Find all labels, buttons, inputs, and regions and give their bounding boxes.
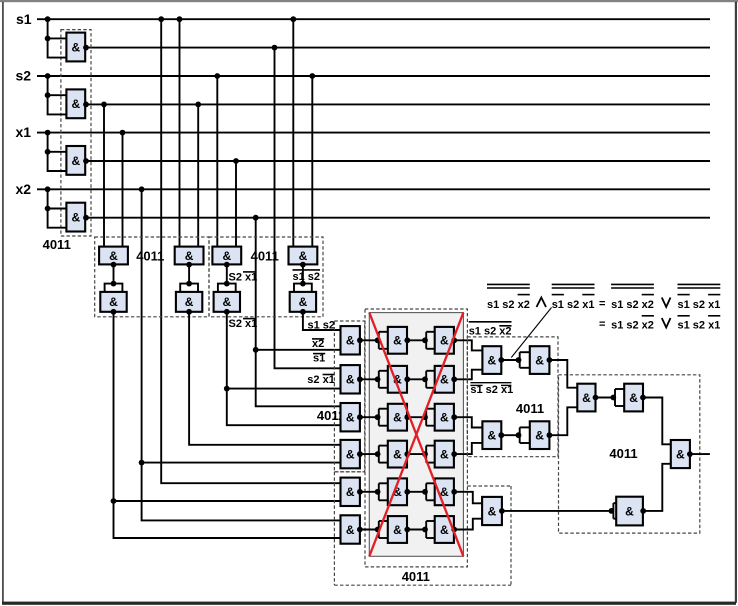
NAND inverter U1D [66,203,85,232]
wire U2A inverter input bracket [105,284,123,292]
svg-text:&: & [488,504,497,518]
wire U2C output down [226,312,228,389]
NAND gate U6B [482,421,501,449]
junction U2B inverter split [186,281,192,287]
svg-text:4011: 4011 [136,249,164,264]
NAND inverter U1B [66,89,85,118]
wire U2A feed U4B [114,501,341,538]
wire V5b to U4C [454,492,482,504]
input label x2 [16,181,32,197]
wire s2n tap to U2B [197,104,199,246]
formula OR operator 1 [662,298,671,308]
svg-text:&: & [346,523,355,537]
wire s2n tap to U2A [103,104,105,246]
wire V4b to U6B [454,443,482,454]
formula OR operator 2 [662,318,671,328]
svg-text:&: & [440,447,449,461]
junction U6Bi output [547,432,553,438]
IC box 4011 U3 [334,321,364,472]
wire U2A feed U4A [114,500,341,502]
red cross line 2 [369,313,463,557]
junction inverter V1b split [422,337,428,343]
bus x1n (inverted) [85,160,710,162]
junction U6A inverter split [516,357,522,363]
junction V2a output [404,376,410,382]
NAND inverter V3a [388,404,407,431]
junction U6A output [498,357,504,363]
wire inverter V2b input bracket [426,371,435,388]
junction inverter V6a split [375,527,381,533]
svg-text:&: & [487,429,496,443]
svg-text:s1 s2: s1 s2 [293,271,321,283]
svg-text:&: & [346,485,355,499]
junction x1n tap to U2C [233,158,239,164]
wire U7C input bracket [613,503,616,519]
NAND inverter V1a [388,327,407,354]
svg-text:4011: 4011 [251,249,279,264]
wire inverter V3b input bracket [426,409,435,426]
junction inverter U1B output [83,102,89,108]
NAND inverter U2Ai [100,292,126,312]
wire U2D feed U3A [303,312,341,330]
junction V2b output [451,376,457,382]
wire V5a to V5b [407,491,426,493]
wire s1 to inverter U1A [48,19,67,57]
bus s2n (inverted) [85,103,710,105]
svg-text:&: & [440,373,449,387]
svg-text:&: & [440,411,449,425]
wire inverter V6b input bracket [426,521,435,538]
svg-text:s1: s1 [16,11,32,27]
NAND gate U2A [99,247,128,265]
junction inverter V2b split [422,376,428,382]
label s2 x1 [307,374,335,386]
wire U3B output to inverter V2a [360,378,379,380]
junction inverter V4b split [422,451,428,457]
junction s1 tap to U2D [290,16,296,22]
bus x1 [37,132,710,134]
IC box 4011 U4 [334,472,511,585]
svg-text:&: & [440,523,449,537]
label s1 s2 (AND output) [308,319,336,331]
junction V6a output [404,527,410,533]
wire V6a to V6b [407,529,426,531]
wire U2D to inverter [302,265,304,284]
NAND inverter V2a [388,366,407,393]
junction x2n tap [253,215,259,221]
junction inverter V3a split [375,414,381,420]
NAND inverter U7C [616,497,643,526]
redundant block background [369,313,463,557]
junction inverter U1C input split [45,149,51,155]
junction s1n tap [272,45,278,51]
svg-text:&: & [71,97,80,111]
svg-text:&: & [299,295,308,309]
junction U7A output [593,395,599,401]
bus s1n (inverted) [85,47,710,49]
NAND inverter U1C [66,146,85,175]
label 4011 U1 [43,237,71,252]
bus s2 [37,75,710,77]
wire U6B to inverter [501,434,519,436]
wire inverter V4a input bracket [379,446,388,463]
junction inverter V6b split [422,527,428,533]
junction U7D output [687,451,693,457]
wire x2n tap down [255,218,257,350]
wire inverter V3a input bracket [379,409,388,426]
junction U2C feed U3B [224,386,230,392]
wire inverter V5a input bracket [379,483,388,500]
svg-text:S2 x1: S2 x1 [229,318,258,330]
svg-text:x1: x1 [16,124,32,140]
label S2 x1 (AND output) [229,318,258,330]
svg-text:=: = [599,318,605,330]
wire U7A inverter bracket [615,389,624,406]
wire x1n tap to U2C [235,161,237,247]
wire U4B output to inverter V6a [360,529,379,531]
NAND inverter U7Ai [624,384,643,412]
junction U2D output [300,262,306,268]
NAND inverter U2Ci [214,292,240,312]
junction inverter V5b split [422,489,428,495]
wire U3C output to inverter V3a [360,416,379,418]
svg-text:&: & [346,373,355,387]
junction V4a output [404,451,410,457]
wire U6A inverter bracket [520,352,530,368]
NAND gate U2B [175,247,204,265]
wire U7Ai to U7D [643,398,671,445]
svg-text:4011: 4011 [609,446,637,461]
formula line 2 term2 [678,316,721,332]
junction x1 tap [45,130,51,136]
junction U2B output [186,262,192,268]
NAND gate U4A [341,478,360,506]
NAND inverter V3b [435,404,454,431]
junction U4A output [357,489,363,495]
svg-text:s1 s2 x1: s1 s2 x1 [678,319,721,331]
NAND inverter U6Ai [530,346,550,374]
label 4011 U3 [317,408,345,423]
bus x2 [37,188,710,190]
label s1 s2 (NAND U2D output, inverted) [293,270,321,283]
svg-text:&: & [346,411,355,425]
wire inverter V5b input bracket [426,483,435,500]
junction s2n tap to U2B [195,102,201,108]
svg-text:s1 s2 x1: s1 s2 x1 [552,299,595,311]
svg-text:&: & [185,295,194,309]
svg-text:&: & [393,523,402,537]
svg-text:&: & [535,353,544,367]
wire inverter V6a input bracket [379,521,388,538]
junction inverter U1C output [83,158,89,164]
junction V6b output [451,527,457,533]
wire U2A to inverter [113,265,115,284]
junction s2n tap to U2A [101,102,107,108]
input label s2 [16,67,32,83]
NAND gate U7D [671,440,690,468]
label 4011 U5 [402,569,430,584]
junction U2A feed U4A [111,498,117,504]
junction V3b output [451,414,457,420]
junction U7C split [609,508,615,514]
NAND inverter U4C [482,497,502,525]
wire V1b to U6A [454,340,482,350]
NAND gate U6A [482,346,501,374]
wire x2 feed U3D [142,462,341,464]
svg-text:s1 s2 x1: s1 s2 x1 [678,299,721,311]
NAND gate U3B [341,365,360,393]
svg-text:S2 x1: S2 x1 [229,272,258,284]
svg-text:4011: 4011 [402,569,430,584]
junction V5a output [404,489,410,495]
NAND inverter V6a [388,516,407,543]
svg-text:&: & [582,391,591,405]
junction inverter U1A output [83,45,89,51]
wire U4C to U7C [502,510,614,512]
wire V2a to V2b [407,378,426,380]
NAND inverter V4b [435,441,454,468]
wire x2 to inverter U1D [48,189,67,227]
formula AND operator [537,298,547,308]
NAND gate U2D [289,247,318,265]
wire x1 to inverter U1C [48,133,67,171]
NAND gate U2C [212,247,241,265]
junction U7A inverter split [610,395,616,401]
wire U6Ai to U7A [549,360,577,388]
svg-text:&: & [222,295,231,309]
junction U2A output [111,262,117,268]
svg-text:&: & [222,249,231,263]
junction U4C output [499,508,505,514]
wire s1 feed U4A [161,19,340,483]
junction V3a output [404,414,410,420]
wire s2 tap to U2D [311,76,313,247]
junction U2Ai output [111,309,117,315]
junction U3C output [357,414,363,420]
label S2 x1 (NAND U2C output) [229,272,258,284]
junction U2A inverter split [111,281,117,287]
label s1 s2 x1 (U6B input, full negation) [470,383,513,397]
label 4011 U2a [136,249,164,264]
wire V3b to U6B [454,417,482,427]
wire U6A to inverter [501,359,519,361]
svg-text:s1 s2 x2: s1 s2 x2 [611,319,654,331]
wire U7C to U7D [643,464,671,511]
svg-text:=: = [599,298,605,310]
wire U6B inverter bracket [520,427,530,443]
svg-text:s1 s2 x2: s1 s2 x2 [469,326,512,338]
IC box 4011 U6 [467,337,558,457]
svg-text:&: & [393,411,402,425]
IC box 4011 U2b [209,237,323,317]
junction U4B output [357,527,363,533]
junction inverter V3b split [422,414,428,420]
wire s1 tap to U2D [292,19,294,246]
NAND gate U3C [341,403,360,431]
NAND gate U4B [341,515,360,543]
wire x1 tap to U2A [122,133,124,247]
wire U2B to inverter [188,265,190,284]
wire x2n feed U3B2 [256,350,341,407]
IC box 4011 U2a [95,237,209,317]
NAND inverter V5b [435,478,454,505]
wire output [690,453,710,455]
junction s1 tap [45,16,51,22]
wire s1 tap to U2B [179,19,181,246]
junction V1b output [451,337,457,343]
svg-text:s1 s2 x2: s1 s2 x2 [487,299,530,311]
junction U3A output [357,337,363,343]
svg-text:x2: x2 [16,181,32,197]
svg-text:&: & [393,334,402,348]
formula line 1 term3 [611,284,654,310]
junction s2 tap to U2D [309,73,315,79]
svg-text:&: & [299,249,308,263]
wire V3a to V3b [407,416,426,418]
input label x1 [16,124,32,140]
junction inverter U1D output [83,215,89,221]
wire U2B feed U3D [189,312,340,445]
wire inverter V2a input bracket [379,371,388,388]
svg-text:&: & [440,334,449,348]
wire s2 tap to U2C [216,76,218,247]
wire U4A output to inverter V5a [360,491,379,493]
svg-text:&: & [71,40,80,54]
formula line 1 term2 [552,284,595,310]
wire U2D inverter input bracket [294,284,312,292]
junction U2C inverter split [224,281,230,287]
svg-text:&: & [676,447,685,461]
svg-text:&: & [535,429,544,443]
input label s1 [16,11,32,27]
wire V6b to U4C [454,519,482,530]
wire x2 tap down [141,189,143,462]
NAND inverter V5a [388,478,407,505]
junction U7C output [640,508,646,514]
NAND inverter V1b [435,327,454,354]
wire V4a to V4b [407,453,426,455]
junction U2Bi output [186,309,192,315]
svg-text:&: & [346,447,355,461]
label 4011 U7 [609,446,637,461]
wire U2C inverter input bracket [218,284,236,292]
junction U6B output [498,432,504,438]
wire U2C feed U3B [227,388,341,390]
svg-text:&: & [346,334,355,348]
junction U6Ai output [547,357,553,363]
NAND inverter V6b [435,516,454,543]
wire U3A output to inverter V1a [360,339,379,341]
pointer line to U6A junction [511,308,551,358]
junction U2C output [224,262,230,268]
svg-text:&: & [71,154,80,168]
junction U3B output [357,376,363,382]
label s1 inverted [313,352,325,364]
IC box 4011 U1 [61,30,91,236]
formula line 1 term1 [487,284,530,310]
NAND gate U3D [341,440,360,468]
wire x2n feed U3A [256,349,341,351]
svg-text:&: & [393,447,402,461]
wire U7A to inverter [596,397,616,399]
NAND inverter U1A [66,33,85,62]
svg-text:&: & [625,504,634,518]
svg-text:s1 s2 x2: s1 s2 x2 [611,299,654,311]
wire U6Bi to U7A [549,407,577,435]
NAND gate U3A [341,326,360,354]
wire U2B inverter input bracket [180,284,198,292]
formula line 2 term1 [611,316,654,332]
wire U2A output down [113,312,115,501]
junction V4b output [451,451,457,457]
svg-text:s2 x1: s2 x1 [307,374,335,386]
junction x2 feed U3D [139,460,145,466]
svg-text:4011: 4011 [43,237,71,252]
junction U6B inverter split [516,432,522,438]
junction U7Ai output [640,395,646,401]
svg-text:&: & [629,391,638,405]
formula equals 2 [599,318,605,330]
junction inverter V5a split [375,489,381,495]
red cross line 1 [369,313,463,557]
formula line 1 term4 [678,284,721,310]
label s1 s2 x2 (U6A input, full negation) [469,322,512,338]
svg-text:&: & [109,295,118,309]
junction V1a output [404,337,410,343]
NAND inverter V2b [435,366,454,393]
IC box 4011 U5 (crossed out) [365,309,467,567]
junction inverter U1D input split [45,206,51,212]
wire s2 to inverter U1B [48,76,67,114]
junction U2Di output [300,309,306,315]
svg-text:&: & [109,249,118,263]
junction x1 tap to U2A [120,130,126,136]
junction U2D inverter split [300,281,306,287]
junction x2 tap [45,186,51,192]
svg-text:&: & [185,249,194,263]
NAND gate U7A [577,384,595,412]
svg-text:&: & [487,353,496,367]
junction s1 tap [158,16,164,22]
NAND inverter V4a [388,441,407,468]
IC box 4011 U7 [559,375,700,533]
wire s1n feed U3B [275,48,341,369]
junction x2 tap [139,186,145,192]
junction s1 tap to U2B [177,16,183,22]
svg-text:4011: 4011 [516,401,544,416]
junction U3D output [357,451,363,457]
label 4011 U6 [516,401,544,416]
NAND inverter U2Di [290,292,316,312]
bus x2n (inverted) [85,217,710,219]
wire inverter V4b input bracket [426,446,435,463]
wire x2 feed U4B [142,463,341,521]
junction inverter V2a split [375,376,381,382]
wire U2C to inverter [226,265,228,284]
junction s2 tap to U2C [214,73,220,79]
wire inverter V1b input bracket [426,332,435,349]
svg-text:&: & [71,211,80,225]
wire inverter V1a input bracket [379,332,388,349]
junction inverter U1B input split [45,92,51,98]
junction x2n feed U3A [253,347,259,353]
wire U2C feed U3C [227,389,341,426]
junction s2 tap [45,73,51,79]
label 4011 U2b [251,249,279,264]
wire V1a to V1b [407,339,426,341]
junction inverter U1A input split [45,36,51,42]
junction inverter V4a split [375,451,381,457]
